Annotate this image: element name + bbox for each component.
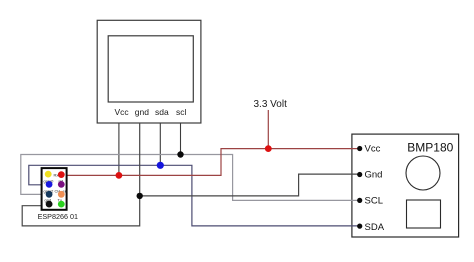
svg-text:BMP180: BMP180 <box>407 141 453 155</box>
svg-text:Rx: Rx <box>54 173 59 178</box>
svg-text:Vcc: Vcc <box>365 143 381 154</box>
svg-text:scl: scl <box>176 107 187 117</box>
svg-text:SDA: SDA <box>365 222 385 233</box>
svg-text:3.3 Volt: 3.3 Volt <box>254 99 288 110</box>
svg-text:SCL: SCL <box>365 196 383 207</box>
svg-text:sda: sda <box>155 107 169 117</box>
svg-text:gnd: gnd <box>135 107 149 117</box>
svg-text:Vcc: Vcc <box>115 107 130 117</box>
svg-text:Gnd: Gnd <box>365 170 383 181</box>
svg-text:ESP8266 01: ESP8266 01 <box>38 212 78 221</box>
